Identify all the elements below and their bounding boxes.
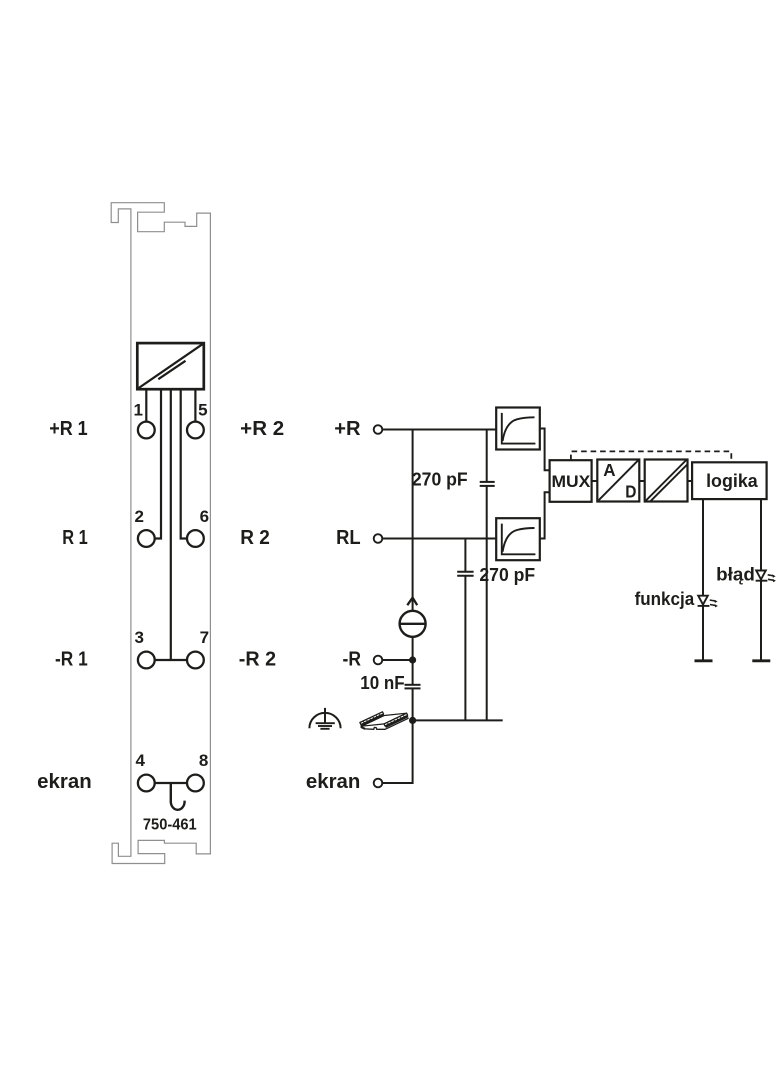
terminal circle 7 (187, 652, 204, 669)
shield rail wire (413, 719, 503, 721)
svg-text:3: 3 (134, 628, 143, 647)
wire A/D to isolator (639, 480, 644, 482)
svg-text:+R 2: +R 2 (240, 418, 284, 440)
pin wire 3 to terminals 3-7 (170, 389, 172, 660)
transducer box U1 (137, 343, 204, 389)
dashed control line (571, 451, 731, 462)
MUX box (550, 460, 592, 502)
wire current source to -R node (412, 637, 414, 685)
capacitor C1 270 pF (480, 430, 495, 721)
svg-text:RL: RL (336, 527, 361, 549)
galvanic isolator box (645, 460, 688, 502)
svg-text:10 nF: 10 nF (360, 673, 404, 693)
wire isolator to logika (688, 480, 693, 482)
svg-text:ekran: ekran (37, 771, 91, 793)
svg-text:-R: -R (343, 649, 362, 671)
earth symbol (309, 708, 340, 729)
wire +R (383, 429, 496, 431)
wire terminals 3-7 (155, 659, 187, 661)
terminal circle 8 (187, 775, 204, 792)
svg-text:8: 8 (199, 751, 208, 770)
svg-text:ekran: ekran (306, 771, 361, 793)
wire MUX to A/D (592, 480, 598, 482)
terminal RL (374, 534, 383, 543)
current source wire from +R node (412, 430, 414, 611)
pin wire 4 to terminal 6 (181, 389, 187, 538)
svg-text:1: 1 (133, 401, 142, 420)
filter box F1 (496, 408, 540, 450)
LED funkcja (695, 499, 718, 661)
terminal circle 3 (138, 652, 155, 669)
terminal circle 1 (138, 422, 155, 439)
A/D converter box (597, 460, 639, 502)
current source Q1 (400, 611, 426, 637)
wire ekran (383, 720, 413, 783)
terminal -R (374, 656, 383, 665)
svg-text:-R 1: -R 1 (55, 649, 88, 671)
DIN rail symbol (360, 712, 409, 730)
wire filter F2 to MUX (540, 492, 550, 538)
pin wire 5 (194, 389, 196, 421)
terminal circle 2 (138, 530, 155, 547)
terminal circle 5 (187, 422, 204, 439)
filter box F2 (496, 518, 540, 560)
terminal ekran (374, 779, 383, 788)
logika box (692, 462, 767, 499)
wire RL (383, 538, 496, 540)
LED blad (752, 499, 776, 661)
terminal circle 6 (187, 530, 204, 547)
wire -R (383, 659, 413, 661)
terminal +R (374, 425, 383, 434)
svg-text:D: D (625, 482, 636, 502)
svg-text:2: 2 (134, 507, 143, 526)
node -R junction (409, 656, 416, 663)
svg-text:7: 7 (200, 628, 209, 647)
wire filter F1 to MUX (540, 429, 550, 471)
svg-text:-R 2: -R 2 (239, 649, 276, 671)
module outline 750-461 side profile (111, 203, 210, 864)
svg-text:+R: +R (334, 418, 361, 440)
current source arrow (407, 598, 417, 606)
svg-text:270 pF: 270 pF (412, 470, 468, 490)
svg-text:4: 4 (135, 751, 145, 770)
pin wire 2 to terminal 2 (155, 389, 161, 538)
svg-text:R 2: R 2 (240, 527, 270, 549)
node shield junction (409, 717, 416, 724)
svg-text:A: A (603, 460, 616, 480)
svg-text:błąd: błąd (716, 565, 755, 585)
wire terminals 4-8 (155, 782, 187, 784)
svg-text:750-461: 750-461 (143, 817, 197, 834)
svg-text:6: 6 (200, 507, 209, 526)
svg-text:+R 1: +R 1 (49, 418, 87, 440)
svg-text:funkcja: funkcja (635, 589, 696, 609)
svg-text:MUX: MUX (552, 473, 591, 491)
svg-text:270 pF: 270 pF (479, 565, 535, 585)
svg-text:5: 5 (198, 401, 207, 420)
pin wire 1 (145, 389, 147, 421)
svg-text:R 1: R 1 (62, 527, 87, 549)
svg-text:logika: logika (706, 471, 759, 491)
capacitor C3 10 nF (405, 685, 421, 721)
terminal circle 4 (138, 775, 155, 792)
shield hook (171, 783, 185, 810)
capacitor C2 270 pF (457, 539, 473, 721)
